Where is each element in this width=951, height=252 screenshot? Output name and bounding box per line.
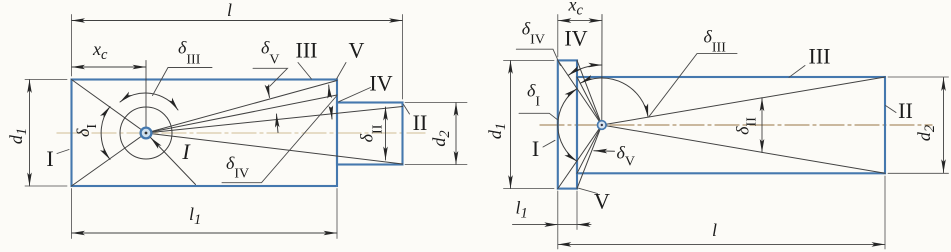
leader III right bbox=[789, 66, 805, 78]
svg-text:II: II bbox=[413, 110, 428, 135]
angle arc delta I right bbox=[558, 89, 577, 162]
wire: tip to main BR bbox=[602, 125, 885, 173]
svg-text:l1: l1 bbox=[189, 204, 201, 228]
wire: facet line C tip to step corner bbox=[146, 107, 403, 134]
dimension delta II arrows bbox=[385, 107, 387, 160]
leader II bbox=[404, 105, 410, 115]
angle arc delta IV right bbox=[568, 65, 602, 75]
svg-text:I: I bbox=[532, 136, 539, 161]
dimension xc bbox=[72, 66, 147, 68]
svg-text:δI: δI bbox=[527, 81, 540, 110]
angle arrows delta V pair bbox=[268, 87, 270, 98]
leader IV bbox=[339, 88, 371, 102]
svg-text:IV: IV bbox=[564, 26, 587, 51]
extension lines right bbox=[557, 15, 559, 58]
svg-text:δIV: δIV bbox=[522, 19, 545, 48]
svg-text:xc: xc bbox=[92, 39, 108, 63]
tip hub bbox=[141, 128, 152, 139]
dimension l right bbox=[558, 243, 885, 245]
svg-text:I: I bbox=[46, 146, 53, 171]
wire: vertical through tip bbox=[601, 15, 603, 126]
angle arc delta III right bbox=[580, 78, 648, 117]
dimension d2 bbox=[455, 103, 457, 165]
dimension d2 right bbox=[943, 78, 945, 173]
svg-text:d1: d1 bbox=[485, 123, 509, 139]
svg-text:δV: δV bbox=[617, 142, 636, 169]
svg-text:V: V bbox=[594, 189, 610, 214]
step shaft rectangle bbox=[337, 103, 403, 165]
centerline axis left bbox=[57, 132, 425, 134]
svg-text:δI: δI bbox=[73, 124, 100, 137]
svg-text:d2: d2 bbox=[914, 125, 938, 141]
wire: facet III line tip to main TR bbox=[602, 77, 885, 125]
dimension l bbox=[72, 20, 403, 22]
svg-text:IV: IV bbox=[369, 71, 392, 96]
main body rectangle bbox=[72, 80, 338, 187]
leader delta I right bbox=[519, 113, 558, 120]
angle arrows near right edge bbox=[328, 85, 331, 96]
wire: tip to flange BR bbox=[577, 125, 602, 189]
svg-text:d2: d2 bbox=[429, 130, 453, 146]
svg-text:l: l bbox=[712, 220, 717, 240]
leader V right bbox=[579, 188, 598, 193]
circle around tip bbox=[120, 107, 172, 159]
leader V bbox=[337, 63, 347, 80]
dimension delta II right bbox=[761, 98, 763, 153]
leader arrow to tip labelled I bbox=[151, 138, 196, 185]
dimension l1 right bbox=[513, 224, 592, 226]
svg-text:l: l bbox=[227, 0, 232, 20]
svg-text:d1: d1 bbox=[6, 128, 30, 144]
centerline axis right bbox=[540, 124, 932, 126]
svg-text:III: III bbox=[809, 44, 831, 69]
leader delta IV bbox=[222, 96, 337, 183]
angle arc delta V right bbox=[594, 150, 615, 153]
wire: facet line B tip to right edge bbox=[146, 95, 337, 133]
dimension xc right bbox=[558, 20, 602, 22]
wire: facet line A tip to TR corner bbox=[146, 81, 337, 134]
svg-text:l1: l1 bbox=[516, 198, 528, 222]
leader delta III right bbox=[649, 54, 737, 117]
leader II right bbox=[886, 106, 897, 113]
leader delta V bbox=[253, 68, 288, 86]
angle arc delta I bbox=[101, 107, 110, 160]
wire: tip to main BL bbox=[577, 125, 602, 173]
dimension d1 right bbox=[510, 60, 512, 188]
angle arc delta III bbox=[120, 93, 178, 110]
leader delta III bbox=[153, 68, 213, 96]
wire: diagonal TL corner to tip bbox=[72, 80, 147, 134]
svg-text:II: II bbox=[898, 98, 913, 123]
flange rectangle bbox=[558, 60, 577, 188]
wire: tip to main TL bbox=[577, 77, 602, 125]
svg-text:δII: δII bbox=[733, 117, 760, 135]
svg-text:V: V bbox=[349, 38, 365, 63]
leader delta IV right bbox=[516, 49, 560, 65]
svg-text:δIII: δIII bbox=[704, 27, 727, 56]
main body rectangle right bbox=[577, 77, 885, 173]
tip hub right bbox=[598, 121, 607, 130]
leader III bbox=[298, 63, 312, 80]
leader I left bbox=[57, 150, 69, 154]
svg-text:δV: δV bbox=[261, 38, 280, 68]
wire: vertical through tip from xc bbox=[145, 61, 147, 134]
dimension d1 bbox=[29, 80, 31, 187]
wire: tip to flange BL bbox=[558, 125, 602, 189]
dimension l1 bbox=[72, 232, 338, 234]
wire: diagonal BL corner to tip bbox=[72, 133, 147, 186]
extension lines bbox=[71, 15, 73, 77]
wire: facet line D tip to step bottom corner bbox=[146, 133, 403, 164]
svg-text:δIV: δIV bbox=[226, 153, 249, 182]
svg-text:I: I bbox=[181, 139, 191, 164]
wire: tip to flange TL bbox=[558, 60, 602, 125]
wire: tip to flange TR bbox=[577, 60, 602, 125]
svg-text:xc: xc bbox=[568, 0, 584, 19]
svg-text:δIII: δIII bbox=[178, 38, 201, 68]
svg-text:III: III bbox=[296, 38, 318, 63]
leader I right bbox=[543, 140, 555, 147]
